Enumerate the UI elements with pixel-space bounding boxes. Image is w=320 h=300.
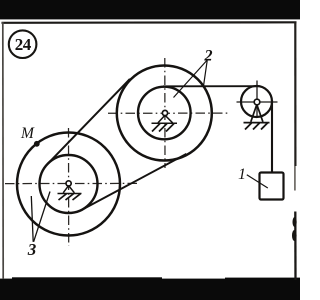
svg-text:M: M xyxy=(20,125,35,142)
svg-text:24: 24 xyxy=(15,35,32,54)
svg-text:2: 2 xyxy=(204,48,213,65)
svg-text:3: 3 xyxy=(27,240,37,259)
svg-text:1: 1 xyxy=(238,166,246,183)
